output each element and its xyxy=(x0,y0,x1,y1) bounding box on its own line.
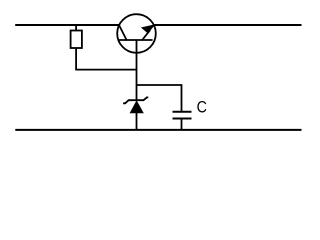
wire capacitor to bottom rail xyxy=(181,120,183,130)
capacitor C xyxy=(173,112,192,119)
transistor Q1 xyxy=(117,14,156,53)
wire resistor bottom to base node xyxy=(76,48,136,70)
wire base vertical xyxy=(136,40,138,100)
wire bottom rail xyxy=(15,129,301,131)
wire zener to bottom rail xyxy=(136,113,138,130)
wire base node to capacitor xyxy=(137,85,182,111)
wire resistor top stub xyxy=(75,25,77,31)
wire top rail left xyxy=(15,24,119,26)
wire top rail right xyxy=(154,24,302,26)
svg-text:C: C xyxy=(197,97,207,116)
resistor R1 xyxy=(71,31,82,49)
zener diode D1 xyxy=(123,97,148,113)
